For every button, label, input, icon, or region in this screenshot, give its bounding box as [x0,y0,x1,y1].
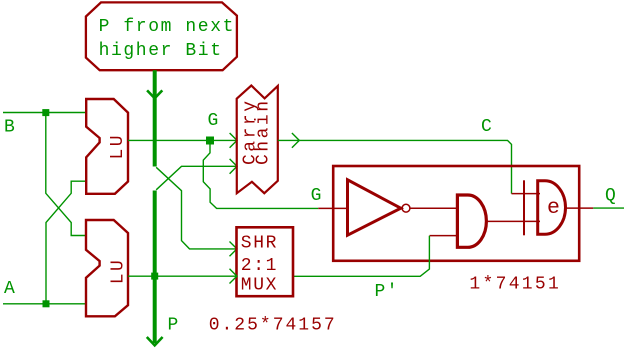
svg-text:1*74151: 1*74151 [469,275,561,295]
LU unit 1 (upper) [86,99,128,194]
wire lower bus to carry chain input 2 [156,166,237,190]
svg-text:P': P' [375,282,399,302]
junction on P bus [151,273,158,280]
svg-text:P: P [168,315,179,335]
svg-text:G: G [208,111,219,131]
flow arrow on P bus [147,90,162,98]
and gate lower input stub [430,235,458,237]
comment box "P from next higher Bit" [86,2,237,70]
svg-text:0.25*74157: 0.25*74157 [209,315,337,335]
pin stub into inverter [318,207,347,209]
inverter bubble [402,204,410,212]
inverter U1 [348,180,401,235]
svg-text:LU: LU [108,258,128,285]
wire: thick P bus lower segment [153,191,157,344]
arrowhead carry chain output [292,133,299,148]
junction on A wire [43,300,50,307]
arrowhead into carry chain input 2 [230,159,237,174]
e gate output [565,207,593,209]
svg-text:SHR: SHR [241,234,278,254]
svg-text:A: A [4,279,15,299]
wire A branch up to crossing [46,181,86,304]
wire mux output up to and gate [293,236,429,276]
arrowhead into mux input 2 [230,269,237,284]
e gate body [538,181,566,235]
wire carry chain output to C [278,140,512,193]
carry chain banner [237,86,278,194]
LU unit 2 (lower) [86,220,128,316]
wire A input [3,303,86,305]
mux box SHR 2:1 MUX [237,227,294,296]
and gate [457,195,486,247]
and gate output to e gate [486,220,540,222]
svg-text:Chain: Chain [254,98,274,165]
e gate input bar [523,180,525,235]
wire B input [3,112,86,114]
wire LU2 output to mux [128,275,237,277]
wire inverter out to and gate [410,207,458,209]
wire G jog down to inverter [203,145,318,209]
wire LU1 output to carry chain [128,139,237,141]
wire Q output [593,207,624,209]
svg-text:MUX: MUX [241,275,278,295]
svg-text:2:1: 2:1 [241,256,278,276]
svg-text:G: G [311,186,322,206]
svg-text:C: C [481,117,492,137]
junction on B wire [42,109,49,116]
svg-text:LU: LU [108,133,128,160]
svg-text:e: e [547,196,560,220]
wire: thick P bus upper segment [153,70,157,166]
wire B branch down to crossing [46,113,86,236]
wire P bus swap upper-to-mux diagonal [156,167,236,249]
svg-text:Q: Q [605,186,616,206]
arrowhead P output bottom [147,337,163,345]
e gate upper input stub [512,193,541,195]
junction node G [206,137,214,145]
svg-text:P from next: P from next [99,17,235,37]
arrowhead into mux input 1 [230,242,237,257]
svg-text:B: B [4,117,15,137]
svg-text:higher Bit: higher Bit [99,41,223,61]
74151 box [333,166,579,261]
arrowhead into carry chain input 1 [230,133,237,148]
